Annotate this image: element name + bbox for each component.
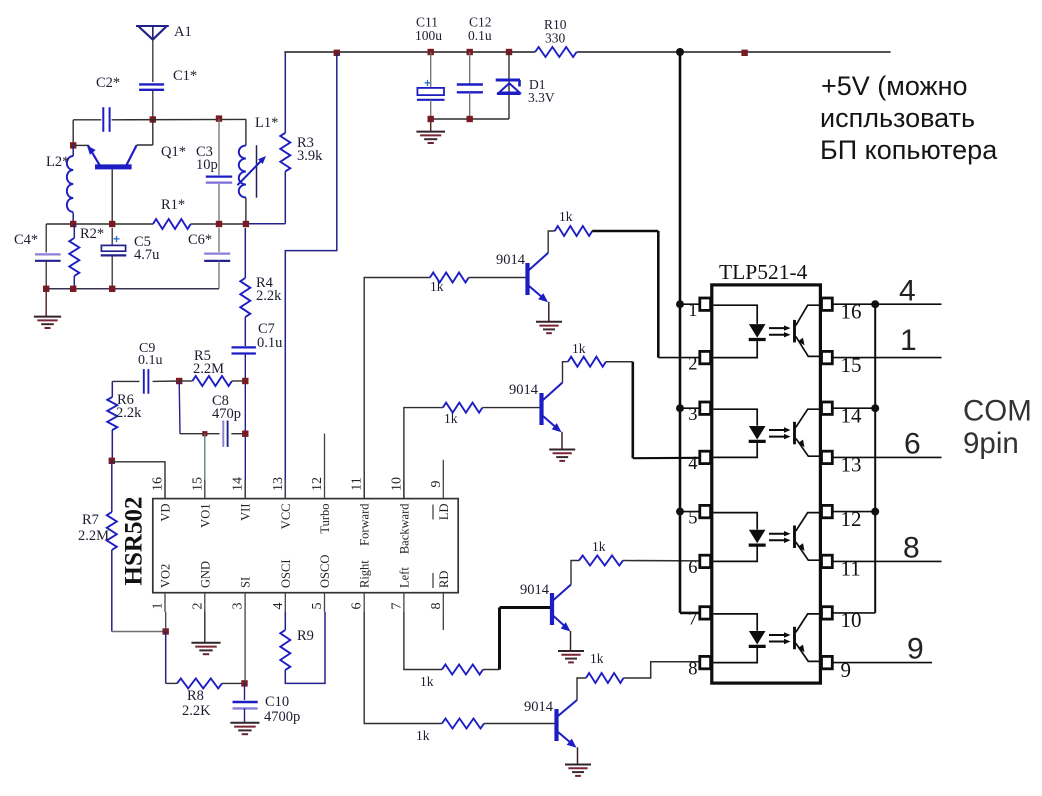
node bus pin12: [871, 508, 879, 516]
node C3/C6 junction: [216, 221, 222, 227]
svg-text:испльзовать: испльзовать: [820, 103, 975, 133]
inductor L1* variable: [237, 119, 266, 224]
opto right pin 10 square: [822, 607, 833, 619]
svg-text:10: 10: [389, 477, 404, 491]
wire pin11 output 8: [832, 560, 941, 562]
label R4 2.2k: [256, 275, 282, 304]
transistor Q2 9014 stage1: [528, 253, 549, 302]
resistor R8: [166, 678, 245, 688]
svg-text:9: 9: [841, 658, 852, 682]
svg-text:VII: VII: [239, 504, 253, 521]
wire stage1 collector to opto pin2: [592, 231, 700, 358]
resistor stage1 base 1k: [430, 273, 469, 283]
pin 10 stub: [403, 480, 405, 499]
ground oscillator: [34, 289, 61, 328]
node C9/R5 junction: [176, 378, 182, 384]
svg-text:14: 14: [231, 477, 246, 491]
svg-text:0.1u: 0.1u: [138, 353, 163, 368]
capacitor C5 electrolytic: [101, 228, 127, 289]
opto left pin 8 square: [700, 656, 711, 668]
svg-text:R8: R8: [187, 688, 204, 704]
wire C8 tap to pin15: [204, 434, 206, 499]
wire opto pin1 feed: [680, 303, 700, 305]
wire stage2 base: [482, 407, 539, 409]
svg-text:R7: R7: [82, 512, 99, 528]
wire pin6 to stage4 base: [364, 612, 442, 724]
wire +5V rail: [284, 51, 890, 53]
wire top oscillator rail: [73, 119, 246, 145]
resistor R9: [280, 612, 325, 683]
svg-text:13: 13: [271, 477, 286, 491]
wire C3 column: [218, 119, 220, 224]
resistor R5: [179, 376, 245, 386]
svg-text:6: 6: [350, 603, 365, 610]
opto right pin 13 square: [822, 451, 833, 463]
svg-text:OSCI: OSCI: [279, 560, 293, 588]
wire power caps bottom: [431, 118, 509, 120]
opto channel 4 LED: [714, 614, 766, 663]
capacitor C2*: [103, 107, 109, 132]
svg-text:R1*: R1*: [161, 197, 185, 213]
wire stage1 base: [469, 277, 526, 279]
node C12 bottom: [467, 116, 473, 122]
svg-text:2.2M: 2.2M: [193, 361, 224, 377]
node Q1 base / C5 top: [109, 221, 115, 227]
wire opto right bus: [874, 304, 876, 613]
node C5 bottom: [109, 286, 115, 292]
svg-text:6: 6: [688, 558, 697, 578]
wire stage3 base thick: [483, 608, 550, 670]
node L2 bottom: [70, 221, 76, 227]
svg-text:9014: 9014: [496, 252, 526, 268]
wire C1 to node: [152, 90, 154, 120]
resistor stage3 collector 1k: [579, 556, 623, 566]
resistor stage4 base 1k: [442, 719, 484, 729]
svg-text:8: 8: [688, 659, 697, 679]
svg-text:2.2K: 2.2K: [182, 703, 211, 719]
pin 3 stub: [244, 593, 246, 612]
ground power: [416, 119, 445, 143]
node bus pin14: [871, 404, 879, 412]
svg-text:7: 7: [688, 610, 697, 630]
label C12 0.1u: [468, 15, 492, 44]
svg-text:10: 10: [841, 608, 862, 632]
opto channel 1 light arrows: [769, 325, 791, 337]
svg-text:4.7u: 4.7u: [134, 247, 159, 263]
svg-text:10p: 10p: [196, 157, 218, 173]
wire +5V to opto anode bus: [680, 52, 700, 613]
ground pin2: [191, 612, 220, 654]
pin 7 stub: [403, 593, 405, 612]
wire VCC to HSR502 pin13: [285, 53, 337, 499]
wire oscillator bottom: [46, 288, 219, 290]
svg-text:2.2k: 2.2k: [256, 288, 282, 304]
svg-text:HSR502: HSR502: [121, 497, 148, 586]
svg-text:L1*: L1*: [255, 115, 278, 131]
ground stage1: [536, 321, 562, 323]
label C3 10p: [196, 144, 218, 173]
wire stage4 collector: [577, 678, 586, 700]
node R5 right junction: [242, 378, 248, 384]
opto left pin 2 square: [700, 351, 711, 363]
opto left pin 5 square: [700, 505, 711, 517]
overline LD: [432, 505, 434, 520]
label C8 470p: [212, 393, 241, 422]
svg-text:Left: Left: [397, 567, 411, 588]
opto channel 1 LED: [714, 305, 766, 357]
wire pin1 down: [165, 612, 167, 632]
svg-text:15: 15: [841, 353, 862, 377]
svg-text:3: 3: [231, 603, 246, 610]
label C10 4700p: [264, 694, 300, 725]
label C7 0.1u: [257, 321, 282, 351]
opto channel 4 light arrows: [769, 632, 791, 644]
svg-text:+: +: [424, 78, 431, 90]
resistor R1*: [153, 219, 191, 229]
svg-text:14: 14: [841, 404, 863, 428]
svg-text:+5V (можно: +5V (можно: [821, 71, 968, 101]
svg-text:11: 11: [350, 477, 365, 490]
node opto pin1 bus: [676, 300, 684, 308]
svg-text:C1*: C1*: [173, 68, 197, 84]
wire stage4 base: [484, 723, 555, 725]
opto right pin 16 square: [822, 298, 833, 310]
svg-text:330: 330: [545, 31, 566, 46]
svg-text:8: 8: [903, 531, 920, 564]
resistor R7: [107, 461, 166, 632]
pin 1 stub: [164, 593, 166, 612]
pin 16 stub: [164, 480, 166, 499]
svg-text:A1: A1: [174, 24, 192, 40]
svg-text:0.1u: 0.1u: [468, 28, 492, 43]
wire pin12 to bus: [832, 511, 875, 513]
opto channel 1 phototransistor: [795, 305, 822, 356]
label R5 2.2M: [193, 348, 224, 377]
node R2 bottom: [70, 286, 76, 292]
pin 9 stub: [442, 480, 444, 499]
svg-text:100u: 100u: [415, 28, 442, 43]
svg-text:LD: LD: [437, 504, 451, 521]
node opto pin5 bus: [676, 508, 684, 516]
capacitor C10: [230, 683, 259, 734]
svg-text:RD: RD: [437, 571, 451, 588]
svg-text:2: 2: [688, 354, 697, 374]
svg-text:1k: 1k: [572, 341, 586, 356]
svg-text:9014: 9014: [509, 382, 539, 398]
svg-text:2.2k: 2.2k: [116, 405, 142, 421]
node bus pin16: [871, 300, 879, 308]
svg-text:9014: 9014: [524, 699, 554, 715]
svg-text:3.9k: 3.9k: [297, 148, 323, 164]
pin 8 stub down: [442, 612, 444, 630]
wire mid oscillator rail: [46, 223, 246, 225]
svg-text:Turbo: Turbo: [318, 504, 332, 534]
zener diode D1: [496, 52, 521, 119]
opto channel 2 phototransistor: [795, 409, 822, 456]
opto left pin 4 square: [700, 451, 711, 463]
opto left pin 1 square: [700, 298, 711, 310]
opto left pin 3 square: [700, 402, 711, 414]
transistor Q5 9014 stage4: [557, 700, 578, 748]
resistor R6: [107, 382, 117, 461]
svg-text:VD: VD: [159, 504, 173, 522]
svg-text:3.3V: 3.3V: [528, 90, 555, 105]
capacitor C7: [232, 346, 256, 348]
pin 4 stub: [284, 593, 286, 612]
node C12 top: [467, 49, 473, 55]
svg-text:2.2M: 2.2M: [78, 528, 109, 544]
wire stage1 emitter: [548, 302, 550, 321]
node C8 left tap: [202, 431, 207, 436]
svg-text:6: 6: [904, 427, 921, 460]
text +5V note: [820, 71, 998, 165]
capacitor C11 electrolytic: [417, 52, 445, 119]
opto left pin 6 square: [700, 555, 711, 567]
svg-text:R9: R9: [297, 628, 314, 644]
wire R6 to pin16: [112, 462, 165, 499]
wire C7 to pin14: [244, 354, 246, 499]
resistor stage1 collector 1k: [555, 226, 593, 236]
ground stage4: [565, 764, 591, 766]
wire stage3 collector: [571, 561, 579, 585]
capacitor C3: [206, 176, 232, 178]
svg-text:2: 2: [190, 603, 205, 610]
capacitor C6*: [204, 228, 230, 289]
svg-text:GND: GND: [198, 561, 212, 588]
pin 12 stub: [324, 480, 326, 499]
pin 8 stub: [442, 593, 444, 612]
resistor R3: [246, 52, 290, 224]
svg-text:9014: 9014: [520, 582, 550, 598]
optocoupler U2 TLP521-4 body: [712, 285, 821, 683]
resistor R2*: [69, 224, 79, 289]
svg-text:4700p: 4700p: [264, 709, 300, 725]
node R6 bottom junction: [109, 458, 115, 464]
svg-text:VCC: VCC: [279, 504, 293, 530]
svg-text:Q1*: Q1*: [161, 144, 186, 160]
wire pin13 output 6: [832, 456, 941, 458]
wire stage2 collector to opto pin4: [606, 362, 700, 459]
svg-text:13: 13: [841, 453, 862, 477]
svg-text:БП копьютера: БП копьютера: [820, 135, 998, 165]
node C3 top junction: [216, 115, 222, 121]
svg-text:12: 12: [310, 477, 325, 491]
label R8 2.2K: [182, 688, 211, 719]
wire stage1 collector: [548, 231, 555, 253]
node C4 bottom: [43, 286, 49, 292]
svg-text:VO2: VO2: [159, 564, 173, 588]
node D1 top: [506, 49, 512, 55]
svg-text:C4*: C4*: [14, 232, 38, 248]
wire pin7 to stage3 base: [404, 612, 442, 670]
wire pin3 down: [244, 612, 246, 683]
opto left pin 7 square: [700, 607, 711, 619]
node rail/VCC branch: [334, 50, 340, 56]
svg-text:1k: 1k: [430, 279, 444, 294]
opto channel 3 phototransistor: [795, 513, 822, 561]
pin 6 stub: [363, 593, 365, 612]
opto right pin 11 square: [822, 555, 833, 567]
ground stage3: [558, 650, 584, 652]
label R7 2.2M: [78, 512, 109, 544]
resistor stage4 collector 1k: [586, 673, 624, 683]
capacitor C12: [457, 52, 483, 119]
transistor Q4 9014 stage3: [552, 585, 571, 632]
capacitor C9: [112, 369, 179, 394]
node C11 top: [428, 49, 434, 55]
node C8 right junction: [242, 431, 248, 437]
svg-text:3: 3: [688, 405, 697, 425]
opto right pin 9 square: [822, 656, 833, 668]
wire stage4 emitter: [577, 747, 579, 764]
node pin1 junction: [163, 628, 169, 634]
svg-text:COM: COM: [963, 395, 1032, 428]
wire stage2 collector: [563, 362, 568, 383]
wire pin9 output 9: [832, 662, 932, 664]
wire pin10 to bus: [832, 612, 875, 614]
wire pin11 to stage1 base: [364, 278, 430, 499]
pin 12 stub up: [324, 434, 326, 481]
svg-text:1: 1: [900, 324, 917, 357]
svg-text:1: 1: [151, 603, 166, 610]
svg-text:1k: 1k: [420, 674, 434, 689]
node opto pin3 bus: [676, 404, 684, 412]
wire stage2 emitter: [561, 432, 563, 449]
wire pin10 to stage2 base: [404, 408, 443, 499]
opto right pin 15 square: [822, 351, 833, 363]
opto channel 2 LED: [714, 409, 766, 457]
wire stage3 emitter: [570, 631, 572, 651]
op-amp U1 HSR502 body: [153, 499, 458, 593]
overline RD: [432, 573, 434, 588]
pin 9 stub up: [442, 460, 444, 480]
capacitor C1*: [139, 84, 164, 89]
pin 14 stub: [244, 480, 246, 499]
node L2 top junction: [70, 142, 76, 148]
svg-text:C2*: C2*: [96, 75, 120, 91]
svg-text:15: 15: [190, 477, 205, 491]
wire pin15 output 1: [832, 357, 941, 359]
pin 11 stub: [363, 480, 365, 499]
transistor Q3 9014 stage2: [542, 383, 563, 433]
svg-text:OSCO: OSCO: [318, 555, 332, 588]
wire pin14 to bus: [832, 407, 875, 409]
node C11 bottom: [428, 116, 434, 122]
wire stage4 collector to opto pin8: [624, 662, 700, 678]
svg-text:11: 11: [841, 557, 861, 581]
svg-text:C10: C10: [265, 694, 289, 710]
svg-text:TLP521-4: TLP521-4: [719, 260, 808, 284]
ground stage2: [549, 449, 575, 451]
capacitor C8: [179, 381, 245, 447]
svg-text:VO1: VO1: [198, 504, 212, 528]
node rail bus junction: [676, 48, 684, 56]
node rail right red: [741, 50, 747, 56]
wire stage3 collector to opto pin6: [623, 560, 700, 562]
label C9 0.1u: [138, 341, 163, 368]
opto channel 4 phototransistor: [795, 614, 822, 662]
label R3 3.9k: [297, 135, 323, 164]
wire opto pin5 feed: [680, 511, 700, 513]
wire pin16 output 4: [832, 303, 941, 305]
resistor stage2 base 1k: [443, 403, 483, 413]
label COM 9pin: [963, 395, 1032, 461]
svg-text:0.1u: 0.1u: [257, 335, 282, 351]
svg-text:R2*: R2*: [80, 226, 104, 242]
svg-text:4: 4: [271, 603, 286, 610]
svg-text:C6*: C6*: [188, 232, 212, 248]
pin 13 stub: [284, 480, 286, 499]
svg-text:5: 5: [688, 508, 697, 528]
pin 2 stub: [204, 593, 206, 612]
opto right pin 14 square: [822, 402, 833, 414]
svg-text:1k: 1k: [592, 539, 606, 554]
node C1/C2 junction: [150, 116, 156, 122]
svg-text:1k: 1k: [559, 209, 573, 224]
pin 5 stub: [324, 593, 326, 612]
opto channel 2 light arrows: [769, 427, 791, 439]
capacitor C4*: [35, 224, 61, 289]
svg-text:Forward: Forward: [358, 503, 372, 546]
svg-text:9pin: 9pin: [963, 427, 1019, 460]
node R8/pin3/C10 junction: [241, 680, 247, 686]
opto channel 3 LED: [714, 513, 766, 562]
svg-text:Right: Right: [358, 560, 372, 588]
resistor stage2 collector 1k: [568, 357, 606, 367]
opto right pin 12 square: [822, 505, 833, 517]
svg-text:+: +: [113, 232, 120, 246]
transistor Q1*: [73, 120, 153, 225]
svg-text:4: 4: [688, 454, 697, 474]
label R10 330: [544, 17, 567, 46]
antenna A1: [136, 26, 169, 40]
svg-text:9: 9: [429, 481, 444, 488]
label D1 3.3V: [528, 77, 555, 105]
svg-text:4: 4: [899, 274, 916, 307]
svg-text:12: 12: [841, 507, 862, 531]
resistor R4: [240, 228, 250, 346]
svg-text:1k: 1k: [416, 728, 430, 743]
svg-text:Backward: Backward: [397, 503, 411, 554]
wire opto pin3 feed: [680, 407, 700, 409]
resistor stage3 base 1k: [442, 665, 483, 675]
label C5 4.7u: [134, 234, 159, 263]
svg-text:16: 16: [151, 477, 166, 491]
svg-text:SI: SI: [239, 577, 253, 588]
svg-text:5: 5: [310, 603, 325, 610]
svg-text:L2*: L2*: [46, 154, 69, 170]
inductor L2*: [67, 145, 73, 224]
svg-text:9: 9: [907, 633, 924, 666]
opto channel 3 light arrows: [769, 531, 791, 543]
svg-text:16: 16: [841, 300, 862, 324]
resistor R10: [535, 47, 577, 57]
svg-text:1: 1: [688, 301, 697, 321]
label R6 2.2k: [116, 392, 142, 421]
wire antenna to C1: [152, 40, 154, 82]
svg-text:470p: 470p: [212, 406, 241, 422]
svg-text:8: 8: [429, 603, 444, 610]
svg-text:1k: 1k: [590, 651, 604, 666]
label C11 100u: [415, 15, 442, 44]
pin 15 stub: [204, 480, 206, 499]
svg-text:1k: 1k: [444, 411, 458, 426]
svg-text:7: 7: [389, 603, 404, 610]
node L1/R4 junction: [243, 221, 249, 227]
